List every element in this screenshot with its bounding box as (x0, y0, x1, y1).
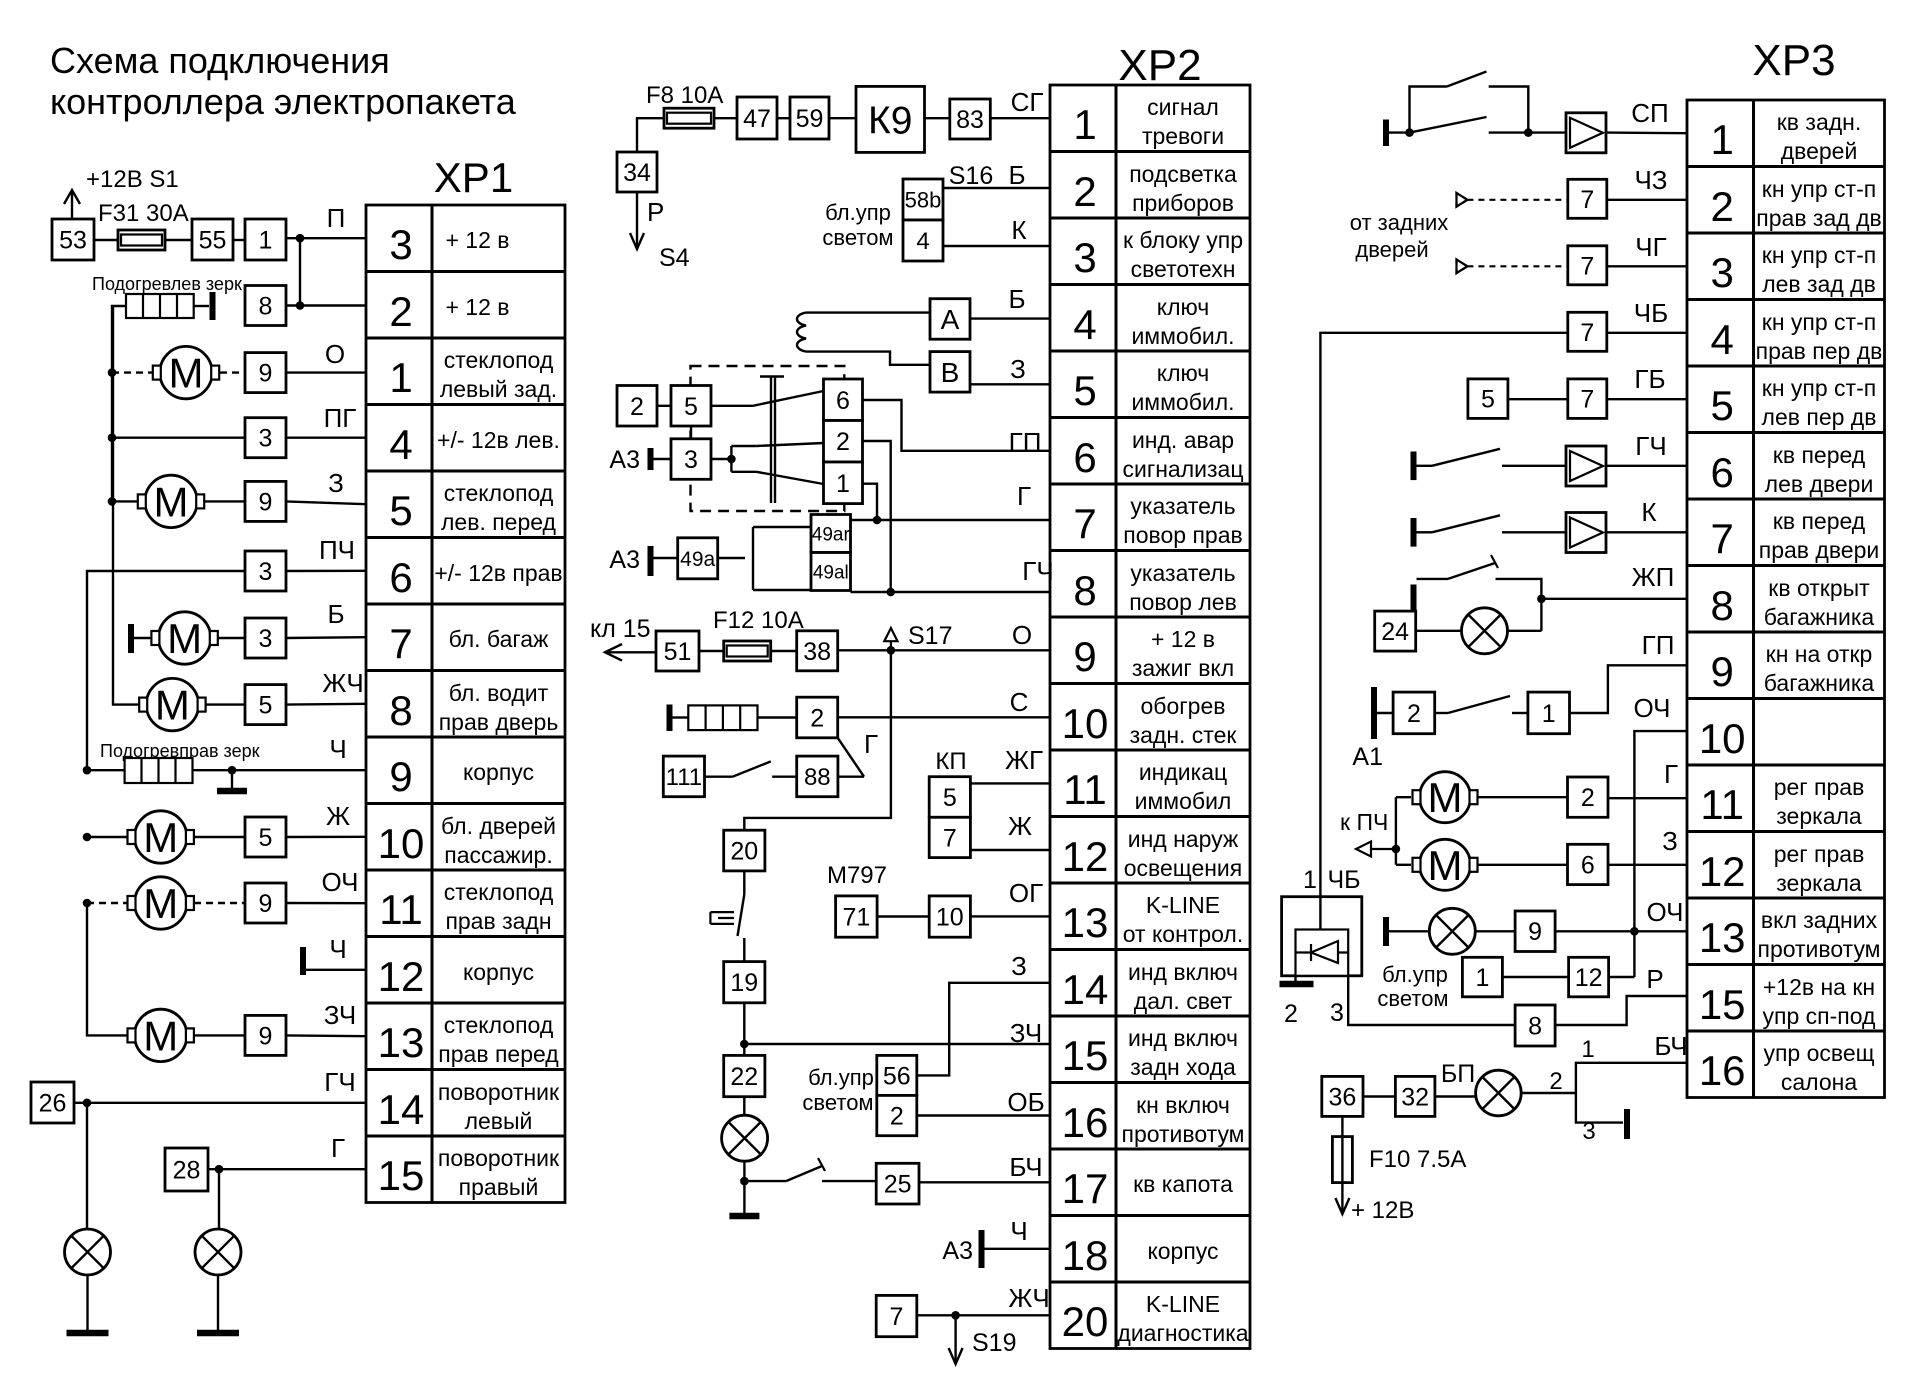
door switch blade (738, 895, 745, 937)
wire ПГ to XP1 pin 4 (286, 437, 366, 439)
svg-text:СГ: СГ (1011, 87, 1044, 117)
junction bus B row Ж (83, 833, 92, 842)
svg-text:левый зад.: левый зад. (440, 376, 557, 402)
terminal box 7 (ЖЧ) (876, 1295, 917, 1336)
svg-text:4: 4 (916, 228, 929, 255)
terminal box 2 (Г) (1568, 777, 1609, 817)
wire К to XP3 (1606, 531, 1687, 533)
XP2 pin 14 row: инд включ дал. свет (1062, 959, 1238, 1014)
terminal box 38 (797, 631, 838, 671)
wire motor to box 2 (Г) (1478, 796, 1568, 798)
XP2 pin 10 row: обогрев задн. стек (1062, 693, 1238, 748)
wire lamp to ground left (86, 1275, 88, 1331)
svg-text:М: М (143, 1012, 178, 1059)
svg-text:задн. стек: задн. стек (1130, 722, 1238, 748)
wire 5 down to 3 (690, 426, 692, 439)
svg-text:упр сп-под: упр сп-под (1763, 1003, 1876, 1029)
motor M window left rear (153, 346, 219, 398)
wire 19 down to 22 (743, 1003, 745, 1056)
XP3 pin 2 row: кн упр ст-п прав зад дв (1711, 176, 1882, 231)
svg-text:10: 10 (378, 820, 425, 867)
motor M mirror adjust 2 (1413, 839, 1478, 890)
svg-text:приборов: приборов (1132, 190, 1234, 216)
door switch plunger symbol (710, 912, 734, 924)
svg-text:2: 2 (890, 1103, 904, 1131)
svg-text:S17: S17 (908, 622, 952, 650)
wire to XP1 pin 2 (286, 304, 366, 306)
svg-text:2: 2 (389, 288, 412, 335)
svg-text:5: 5 (259, 824, 273, 852)
svg-text:З: З (1011, 951, 1027, 981)
svg-text:З: З (328, 468, 344, 498)
XP2 pin 7 row: указатель повор прав (1073, 493, 1242, 548)
terminal box 5 (ГБ) (1468, 379, 1508, 419)
svg-text:36: 36 (1328, 1083, 1356, 1111)
svg-text:ключ: ключ (1157, 360, 1209, 386)
junction dot S17 (887, 646, 896, 655)
svg-text:12: 12 (1062, 833, 1109, 880)
wire switches to diode (1528, 131, 1566, 133)
wire З to XP3 pin 12 (1608, 864, 1687, 866)
wire СП to XP3 pin 1 (1606, 131, 1687, 134)
svg-text:9: 9 (1073, 633, 1096, 680)
svg-text:инд наруж: инд наруж (1128, 826, 1239, 852)
svg-text:8: 8 (1528, 1013, 1542, 1041)
junction left rear door switches (1405, 128, 1414, 137)
svg-text:прав зад дв: прав зад дв (1756, 205, 1881, 231)
svg-text:М: М (167, 615, 202, 662)
trunk switch blade (1448, 563, 1495, 579)
terminal box 28 (165, 1148, 208, 1191)
wire bar to trunk blade (1417, 578, 1449, 580)
svg-text:обогрев: обогрев (1141, 693, 1226, 719)
arrow down P S4 from box 34 (636, 192, 638, 247)
terminal box 3 (ПЧ) (245, 551, 286, 591)
arrow left кл 15 (605, 644, 656, 661)
svg-text:3: 3 (684, 446, 698, 474)
wire Г to XP2 pin 7 (851, 519, 1051, 521)
terminal box 20 (724, 830, 765, 871)
XP2 pin 9 row: + 12 в зажиг вкл (1073, 626, 1234, 681)
terminal box 71 (836, 896, 878, 937)
terminal bar front right door switch (1411, 518, 1417, 547)
XP1 pin 11 row: стеклопод прав задн (379, 879, 554, 934)
svg-text:М: М (1428, 774, 1463, 821)
dashed arrow to rear doors (ЧЗ) (1457, 193, 1568, 207)
terminal box 49a (678, 538, 718, 579)
terminal box 53 (52, 219, 94, 260)
wire trunk lamp to junction (1508, 630, 1542, 632)
motor M mirror adjust 1 (1413, 772, 1478, 823)
junction right rear door switches (1524, 128, 1533, 137)
wire 88 to Г node (838, 776, 864, 778)
svg-text:5: 5 (1481, 386, 1495, 414)
S17 splice symbol triangle (884, 628, 897, 650)
wire motor to box 9 З (205, 500, 245, 502)
svg-text:10: 10 (936, 904, 964, 932)
motor M window left front (138, 475, 204, 527)
svg-text:2: 2 (1284, 1000, 1298, 1028)
wire to mirror motor 2 (1396, 864, 1411, 866)
svg-text:кл 15: кл 15 (590, 615, 651, 643)
svg-text:K-LINE: K-LINE (1146, 892, 1220, 918)
svg-text:7: 7 (1580, 386, 1594, 414)
svg-text:В: В (941, 357, 960, 388)
КП terminal 7 (929, 817, 970, 857)
svg-text:указатель: указатель (1130, 493, 1235, 519)
wire bus B down to motor ЗЧ (87, 903, 127, 1035)
svg-text:ПЧ: ПЧ (319, 535, 355, 565)
wire ГП to XP2 pin 6 (863, 400, 1050, 451)
hood switch blade (744, 1180, 786, 1182)
svg-text:ОГ: ОГ (1009, 878, 1043, 908)
svg-text:К: К (1011, 215, 1026, 245)
svg-text:рег прав: рег прав (1774, 841, 1865, 867)
svg-text:индикац: индикац (1139, 759, 1227, 785)
wire Г diagonal from box 2 to 88 node (838, 738, 864, 777)
svg-text:ЗЧ: ЗЧ (1010, 1018, 1042, 1048)
svg-text:58b: 58b (905, 187, 942, 212)
wire blade to diode front left door switch (1502, 465, 1566, 467)
wire Р to XP3 pin 15 (1555, 996, 1687, 1025)
svg-text:БЧ: БЧ (1009, 1152, 1042, 1182)
terminal box 88 (797, 756, 838, 797)
wire 2 to 5 (657, 405, 671, 407)
svg-text:кн на откр: кн на откр (1766, 641, 1873, 667)
svg-text:бл.упр: бл.упр (808, 1065, 874, 1090)
svg-text:ПГ: ПГ (324, 403, 357, 433)
terminal box 7 (ЧБ) (1568, 312, 1607, 351)
wire ЖЧ to XP2 pin 20 (917, 1314, 1050, 1316)
terminal box 9 (О) (245, 353, 286, 393)
wire S17 down to box 20 (744, 650, 891, 830)
svg-text:Р: Р (647, 197, 664, 227)
svg-text:2: 2 (836, 428, 850, 456)
wire lamp to ground right (217, 1275, 219, 1331)
svg-text:стеклопод: стеклопод (444, 347, 554, 373)
svg-text:1: 1 (1711, 116, 1734, 163)
svg-text:111: 111 (666, 764, 702, 791)
XP2 pin 18 row: корпус (1062, 1232, 1219, 1279)
switch blade front right door switch (1432, 515, 1500, 532)
svg-text:дверей: дверей (1781, 138, 1858, 164)
XP3 pin 9 row: кн на откр багажника (1711, 641, 1875, 696)
svg-text:9: 9 (1528, 918, 1542, 946)
wire pin1 into relay (1319, 895, 1321, 930)
wire heater to box 2 (758, 716, 797, 718)
wire 51 to fuse F12 (699, 650, 724, 652)
wire coil bottom to box B (806, 352, 930, 365)
svg-text:к блоку упр: к блоку упр (1123, 227, 1243, 253)
terminal box 3 (ПГ) (245, 418, 286, 458)
svg-text:стеклопод: стеклопод (444, 1012, 554, 1038)
svg-text:О: О (325, 339, 345, 369)
XP1 pin 7 row: бл. багаж (389, 620, 549, 667)
wire bus to motor З (112, 500, 137, 502)
wire bar to trunk motor (134, 637, 151, 639)
svg-text:15: 15 (1699, 981, 1746, 1028)
svg-text:дверей: дверей (1355, 237, 1428, 262)
wire hazard 1 down to Г (863, 484, 877, 520)
wire motor to box 6 (З) (1478, 864, 1568, 866)
terminal box 5 (hazard) (671, 386, 711, 427)
heated left mirror resistor (126, 294, 194, 318)
wire 55 to 1 (233, 239, 245, 241)
svg-text:лев. перед: лев. перед (441, 509, 557, 535)
svg-text:5: 5 (684, 393, 698, 421)
junction dot ЗЧ branch (740, 1040, 749, 1049)
svg-text:диагностика: диагностика (1117, 1320, 1248, 1346)
XP1 pin 1 row: стеклопод левый зад. (389, 347, 557, 402)
ground right turn lamp (197, 1330, 239, 1337)
terminal bar rear heater (667, 705, 673, 732)
svg-text:+ 12 в: + 12 в (445, 227, 509, 253)
wire lamp to ground (743, 1161, 745, 1213)
svg-text:16: 16 (1062, 1099, 1109, 1146)
svg-text:З: З (1662, 826, 1678, 856)
terminal box A (930, 299, 970, 340)
wire bar to switches (1389, 131, 1410, 133)
hazard terminal 1 (824, 462, 863, 504)
svg-text:кн включ: кн включ (1136, 1092, 1230, 1118)
svg-text:стеклопод: стеклопод (444, 480, 554, 506)
svg-text:12: 12 (1699, 848, 1746, 895)
lamp trunk light (1462, 608, 1508, 654)
svg-text:19: 19 (730, 969, 758, 997)
XP1 pin 12 row: корпус (378, 953, 534, 1000)
svg-text:прав пер дв: прав пер дв (1756, 338, 1883, 364)
wire relay pin3 to box 8 (1348, 976, 1515, 1025)
diode front right door switch (1566, 513, 1606, 553)
junction dot hood switch (740, 1177, 749, 1186)
ground relay pin 2 (1280, 981, 1314, 988)
XP1 pin 5 row: стеклопод лев. перед (389, 480, 556, 535)
wire 20 to door switch (743, 871, 745, 895)
svg-text:12: 12 (378, 953, 425, 1000)
svg-text:8: 8 (389, 687, 412, 734)
XP2 pin 13 row: K-LINE от контрол. (1062, 892, 1244, 947)
wire switch to 88 (772, 776, 797, 778)
svg-text:М: М (155, 682, 190, 729)
svg-text:М: М (169, 350, 204, 397)
wire bar to blade front left door switch (1417, 465, 1433, 467)
svg-text:кн упр ст-п: кн упр ст-п (1762, 242, 1876, 268)
wire 22 to lamp (743, 1097, 745, 1115)
svg-text:5: 5 (1711, 382, 1734, 429)
terminal box 2 (С) (797, 697, 838, 738)
svg-text:Р: Р (1646, 964, 1663, 994)
wire ПЧ to XP1 pin 6 (286, 570, 366, 573)
svg-text:4: 4 (1711, 316, 1734, 363)
terminal box 26 (31, 1082, 74, 1123)
wire ЧГ to XP3 pin 3 (1607, 265, 1687, 267)
turn selector contact bracket (753, 527, 811, 590)
svg-text:2: 2 (1073, 168, 1096, 215)
svg-text:кн упр ст-п: кн упр ст-п (1762, 176, 1876, 202)
svg-text:К9: К9 (868, 99, 912, 142)
wire bus to motor Ж (87, 836, 127, 838)
terminal box 32 (1395, 1076, 1435, 1116)
dashed wire bus to motor ОЧ (87, 902, 127, 904)
rear window heater resistor (688, 705, 757, 730)
svg-text:F12 10A: F12 10A (713, 607, 804, 634)
terminal bar А1 (1371, 687, 1377, 739)
XP2 pin 8 row: указатель повор лев (1073, 560, 1236, 615)
svg-text:БП: БП (1441, 1060, 1475, 1088)
wire ОЧ pin10 link down (1634, 731, 1687, 977)
XP1 pin 14 row: поворотник левый (378, 1079, 560, 1134)
light unit terminal 56 (877, 1055, 917, 1095)
svg-text:ГЧ: ГЧ (1635, 431, 1666, 461)
XP1 pin 3 row: + 12 в (389, 221, 509, 268)
svg-text:ЧБ: ЧБ (1327, 866, 1360, 894)
terminal box 7 (ГБ) (1568, 379, 1607, 419)
svg-text:ЖЧ: ЖЧ (1008, 1283, 1049, 1313)
wire F8 to 47 (714, 117, 737, 119)
terminal box 9 (ОЧ) (1515, 911, 1555, 952)
terminal bar А3 49a (648, 546, 654, 576)
svg-text:Г: Г (1664, 759, 1678, 789)
wire 32 to lamp БП (1435, 1095, 1476, 1097)
terminal bar fog lamp (1383, 917, 1389, 946)
wire ЧЗ to XP3 pin 2 (1607, 199, 1687, 201)
svg-text:2: 2 (1407, 700, 1421, 728)
wire ЗЧ to XP2 pin 15 (744, 1043, 1050, 1045)
wire ЖГ to XP2 pin 11 (970, 782, 1050, 784)
svg-text:3: 3 (1711, 249, 1734, 296)
wire bus to box 3 ПГ (112, 437, 245, 439)
XP1 pin 4 row: +/- 12в лев. (389, 421, 560, 468)
terminal box 1 (А1) (1528, 692, 1570, 734)
junction dot mirror motors (1392, 845, 1401, 854)
svg-text:ЧЗ: ЧЗ (1634, 165, 1667, 195)
svg-text:КП: КП (935, 748, 966, 775)
svg-text:Ч: Ч (1010, 1216, 1027, 1246)
svg-text:12: 12 (1575, 964, 1603, 992)
wire motor to box 9 ЗЧ (194, 1034, 245, 1036)
svg-text:49ar: 49ar (812, 524, 851, 545)
wire upper switch feed (1410, 87, 1447, 133)
terminal box 12 (1569, 957, 1609, 997)
wire trunk switch out (1496, 579, 1542, 599)
svg-text:5: 5 (1073, 367, 1096, 414)
svg-text:ГП: ГП (1009, 427, 1042, 457)
svg-text:светом: светом (822, 225, 893, 250)
svg-text:3: 3 (259, 625, 273, 653)
switch blade front left door switch (1432, 449, 1500, 466)
XP2 connector table frame (1050, 85, 1250, 1349)
wire 111 to switch (705, 776, 733, 778)
wire ОБ to XP2 pin 16 (917, 1114, 1050, 1116)
fuse F10 7.5A (vertical) (1332, 1137, 1352, 1183)
terminal box 25 (876, 1163, 919, 1204)
terminal box 7 (ЧЗ) (1568, 179, 1607, 218)
terminal bar А3 hazard (648, 448, 654, 470)
svg-text:5: 5 (943, 784, 957, 812)
wire ГЧ to XP3 (1606, 465, 1687, 467)
svg-text:зеркала: зеркала (1776, 870, 1862, 896)
XP3 pin 7 row: кв перед прав двери (1711, 508, 1880, 563)
КП terminal 5 (929, 777, 970, 818)
terminal box 24 (1375, 611, 1416, 651)
svg-text:корпус: корпус (1147, 1238, 1218, 1264)
svg-text:2: 2 (810, 705, 824, 733)
svg-text:32: 32 (1401, 1083, 1429, 1111)
svg-text:бл.упр: бл.упр (825, 200, 891, 225)
terminal box 3 (Б) (245, 618, 286, 658)
wire bar to fog lamp (1389, 930, 1429, 932)
wire ГЧ to XP2 pin 8 (851, 591, 1051, 593)
wire 36 down to fuse F10 (1341, 1116, 1343, 1136)
svg-text:бл.упр: бл.упр (1382, 962, 1448, 987)
wire 34 up to fuse F8 (637, 118, 664, 152)
svg-text:ГП: ГП (1642, 630, 1675, 660)
svg-text:9: 9 (259, 360, 273, 388)
svg-text:Г: Г (1017, 481, 1031, 511)
terminal bar А3 pin18 (979, 1230, 985, 1268)
svg-text:иммобил: иммобил (1135, 788, 1232, 814)
wire 24 to trunk lamp (1416, 630, 1462, 632)
svg-text:прав двери: прав двери (1759, 537, 1879, 563)
fuse F8 10A (664, 108, 714, 128)
trunk release button blade (1435, 712, 1448, 714)
dashed wire motor to box 9 (220, 371, 245, 373)
terminal box 36 (1322, 1076, 1363, 1116)
svg-text:С: С (1010, 687, 1029, 717)
wire ОГ to XP2 pin 13 (970, 915, 1050, 917)
svg-text:светом: светом (802, 1090, 873, 1115)
terminal box 5 (ЖЧ) (245, 685, 286, 725)
wire lamp to fork (1521, 1092, 1576, 1094)
wire БЧ to XP2 pin 17 (919, 1181, 1050, 1183)
wire ЧБ feed from relay (1320, 333, 1567, 895)
wire А3 bar to box 3 (653, 458, 671, 460)
svg-text:кн упр ст-п: кн упр ст-п (1762, 375, 1876, 401)
junction dot left turn lamp (83, 1099, 92, 1108)
svg-text:26: 26 (39, 1090, 67, 1118)
wire А3 bar to 49a (653, 557, 678, 559)
terminal bar trunk motor (128, 624, 134, 653)
svg-text:БЧ: БЧ (1654, 1031, 1687, 1061)
svg-text:7: 7 (1580, 186, 1594, 214)
junction bus B row ОЧ (83, 899, 92, 908)
diode rear doors (1566, 113, 1606, 153)
svg-text:задн хода: задн хода (1130, 1054, 1236, 1080)
svg-text:к ПЧ: к ПЧ (1340, 809, 1388, 835)
wire ОЧ to XP1 pin 11 (286, 902, 366, 905)
junction dot hazard common (727, 455, 736, 464)
wire Г to XP1 pin 15 (208, 1168, 366, 1170)
svg-text:ХР2: ХР2 (1118, 41, 1201, 90)
svg-text:8: 8 (1073, 567, 1096, 614)
svg-text:83: 83 (956, 106, 984, 134)
junction dot S19 (951, 1311, 960, 1320)
svg-text:9: 9 (259, 488, 273, 516)
svg-text:сигнализац: сигнализац (1122, 456, 1243, 482)
wire Б to XP1 pin 7 (286, 636, 366, 639)
wire Ж to XP1 pin 10 (286, 836, 366, 839)
svg-text:S19: S19 (972, 1329, 1016, 1357)
svg-text:корпус: корпус (463, 759, 534, 785)
svg-text:+ 12 в: + 12 в (1151, 626, 1215, 652)
XP1 pin 9 row: корпус (389, 753, 534, 800)
svg-text:53: 53 (59, 227, 87, 255)
wire mirror to terminal bar (194, 305, 209, 307)
arrow down +12V feed (1341, 1183, 1343, 1212)
svg-text:Ч: Ч (329, 934, 346, 964)
svg-text:корпус: корпус (463, 959, 534, 985)
wire З to XP2 pin 5 (970, 383, 1050, 385)
